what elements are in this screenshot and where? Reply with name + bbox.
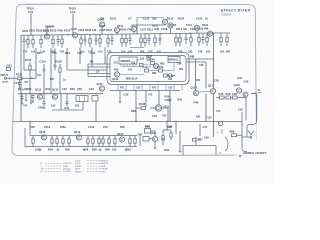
border frame of schematic sheet (12, 4, 256, 155)
label right of module wires (190, 56, 204, 68)
label NORMAL EFFECT (244, 152, 267, 155)
svg-text:10k: 10k (92, 28, 97, 32)
test point TP102 label (69, 8, 77, 15)
labels right cluster (196, 76, 249, 96)
resistor R130 (230, 129, 243, 136)
svg-text:C40: C40 (244, 80, 249, 84)
svg-text:C104: C104 (78, 28, 85, 32)
svg-text:R67: R67 (198, 139, 203, 142)
svg-text:C61: C61 (114, 62, 119, 65)
svg-text:MN3101: MN3101 (169, 58, 179, 62)
svg-text:471: 471 (24, 80, 29, 84)
svg-text:R64: R64 (165, 148, 170, 152)
svg-text:4k7: 4k7 (226, 50, 231, 54)
svg-text:C122: C122 (143, 17, 150, 21)
svg-text:TR: TR (41, 169, 44, 171)
svg-text:Q101: Q101 (43, 29, 50, 33)
upper small labels row (100, 17, 208, 21)
sub bus above (137, 25, 165, 34)
wire vertical x105 (104, 47, 106, 64)
svg-text:R106: R106 (85, 28, 92, 32)
svg-text:IC102: IC102 (75, 163, 81, 165)
svg-text:R111: R111 (147, 27, 153, 31)
svg-text:68p: 68p (179, 68, 184, 71)
svg-text:C28: C28 (124, 93, 129, 97)
transistor Q102 (71, 27, 78, 38)
IC U102 MN3101 (168, 57, 180, 63)
resistor R122 (25, 58, 32, 74)
svg-text:C42: C42 (103, 125, 108, 129)
svg-text:103: 103 (140, 58, 145, 61)
wire sub bus upper (137, 18, 164, 26)
wire TP101 to top bus (30, 14, 32, 36)
svg-text:C22: C22 (62, 87, 67, 91)
wire drop x61 (60, 94, 62, 110)
svg-text:FL-A: FL-A (18, 88, 24, 92)
svg-text:R60: R60 (105, 148, 110, 152)
svg-text:R107: R107 (106, 28, 113, 32)
svg-text:470k: 470k (57, 28, 63, 32)
wire vertical x30 low (29, 74, 31, 94)
svg-text:C9: C9 (96, 69, 100, 73)
svg-text:R93: R93 (152, 72, 157, 75)
extra module labels (114, 63, 173, 82)
wire vertical x67 (66, 48, 68, 70)
resistor R128 (136, 102, 146, 110)
transistor Q123 (194, 25, 199, 33)
bus row C lower (30, 146, 137, 148)
wire vertical x92 (91, 48, 93, 68)
svg-text:R42: R42 (178, 99, 183, 102)
transistor Q106 (162, 19, 167, 25)
second label row above bus (45, 23, 209, 29)
svg-text:R135: R135 (146, 55, 153, 58)
svg-text:R134: R134 (178, 17, 185, 21)
svg-text:1M: 1M (183, 27, 187, 31)
curved wire bottom (225, 137, 228, 151)
transistor Q101 (43, 29, 50, 40)
svg-text:Q103: Q103 (98, 18, 105, 22)
svg-text:Q109: Q109 (112, 77, 119, 81)
component box at border top (6, 64, 12, 71)
wire vertical x246 (245, 98, 247, 121)
svg-text:IC101: IC101 (75, 160, 81, 162)
svg-text:PHONE: PHONE (101, 169, 109, 171)
resistor R126 in module (157, 65, 164, 72)
svg-text:C16: C16 (77, 51, 82, 55)
transistor Q113 (52, 94, 57, 99)
svg-text:R103: R103 (50, 29, 57, 33)
transistor Q118 (39, 130, 47, 140)
labels above row B (18, 87, 94, 92)
resistor R127 in module (164, 74, 176, 78)
svg-text:C46: C46 (204, 137, 209, 140)
svg-text:27k: 27k (198, 50, 203, 54)
IC U101 pin ticks (121, 64, 136, 67)
wire vertical x213 lower (213, 94, 215, 122)
long bus wire (13, 121, 214, 123)
ground ticks row C (39, 148, 128, 151)
svg-text:LEVEL: LEVEL (2, 82, 9, 84)
wire Q114 to Q115 (199, 91, 211, 94)
module outer enclosure (107, 53, 189, 85)
svg-text:R38: R38 (131, 109, 136, 113)
svg-text:4.7: 4.7 (128, 17, 132, 21)
transistor Q104 (114, 27, 119, 34)
svg-text:333: 333 (188, 50, 193, 54)
label mid-left 3 (24, 89, 29, 91)
svg-text:NORMAL / EFFECT: NORMAL / EFFECT (244, 152, 267, 155)
resistor R135 in module (146, 55, 153, 60)
svg-text:R131: R131 (110, 17, 117, 21)
svg-text:C108: C108 (161, 27, 168, 31)
svg-text:C43: C43 (162, 115, 167, 118)
wire Q103 to bus (101, 27, 103, 34)
transistor Q121 (150, 132, 158, 142)
labels mid right (124, 93, 170, 119)
svg-text:JACK: JACK (75, 168, 81, 171)
svg-text:R121: R121 (202, 23, 209, 27)
svg-text:MN3005: MN3005 (101, 160, 110, 162)
svg-text:C36: C36 (214, 79, 219, 83)
transistor Q117 (243, 92, 248, 97)
svg-text:R88: R88 (190, 56, 195, 59)
svg-text:C45: C45 (138, 133, 143, 136)
svg-text:R66: R66 (167, 125, 172, 129)
svg-text:C23: C23 (89, 87, 94, 91)
component value labels above bus (22, 27, 209, 33)
resistor R123 (56, 60, 63, 77)
capacitor C114 (40, 60, 47, 94)
bus row C right (140, 122, 176, 147)
wire rowC cluster (149, 131, 157, 149)
svg-text:C117: C117 (143, 65, 150, 69)
svg-text:C123: C123 (196, 17, 203, 21)
transistor Q103 (98, 18, 105, 28)
svg-text:56k: 56k (204, 27, 209, 31)
capacitor drop x22 (21, 94, 24, 105)
cluster near x196 (193, 137, 210, 146)
arrow under label (239, 156, 241, 159)
transistor Q108 (207, 31, 212, 36)
bus row B right (110, 90, 180, 92)
wire vertical x242 (241, 112, 243, 137)
resistor box rowC r2 (138, 133, 150, 141)
input jack J101 label (1, 74, 9, 77)
capacitor drop x44 (43, 94, 46, 109)
junction dots on top bus (30, 32, 214, 36)
svg-text:R46: R46 (226, 92, 231, 96)
svg-text:Q112: Q112 (35, 88, 42, 92)
transistor Q114 (191, 85, 199, 95)
capacitor C115a (32, 94, 35, 103)
svg-text:R128: R128 (139, 102, 146, 106)
svg-text:B: B (258, 89, 260, 92)
wire vertical x213 upper (213, 33, 215, 88)
resistor rowC r4 (167, 125, 172, 140)
input jack symbol (4, 77, 15, 80)
IC U101 MN3005 (119, 57, 137, 64)
svg-text:C119: C119 (44, 125, 51, 129)
transistor Q122 on bus (217, 121, 223, 134)
pot VR101 box (76, 96, 88, 102)
svg-text:Q121: Q121 (150, 132, 157, 135)
svg-text:C111: C111 (186, 23, 192, 27)
svg-text:C52: C52 (136, 87, 141, 90)
capacitor drop x67 (66, 94, 69, 107)
svg-text:104: 104 (31, 50, 36, 54)
capacitor C113 (18, 80, 21, 89)
svg-text:R50: R50 (120, 125, 125, 129)
svg-text:EFFECT MIXER: EFFECT MIXER (221, 8, 251, 12)
svg-text:R61: R61 (196, 116, 201, 119)
wire Q101 collector (47, 27, 53, 34)
diode D101 in module (166, 74, 175, 78)
mid label row (37, 51, 96, 55)
svg-text:472: 472 (148, 93, 153, 97)
transistor Q111 below module (97, 82, 105, 91)
svg-text:R109: R109 (120, 28, 127, 32)
capacitor on x170 (169, 96, 172, 104)
svg-text:47u: 47u (98, 50, 103, 54)
svg-text:C56: C56 (199, 64, 204, 67)
bus row C upper (30, 135, 137, 137)
svg-text:330: 330 (152, 17, 157, 21)
wire rowC right verticals (200, 122, 214, 138)
svg-text:C65: C65 (168, 79, 173, 81)
svg-text:R45: R45 (219, 92, 224, 96)
vertical drops rowB right (119, 91, 171, 122)
svg-text:Q114: Q114 (191, 85, 198, 89)
transistor Q112 (37, 94, 42, 99)
svg-text:R31: R31 (46, 87, 51, 91)
svg-text:C120: C120 (88, 125, 95, 129)
base rail segment (130, 47, 144, 49)
svg-text:Q120: Q120 (117, 132, 124, 136)
wire input line (15, 77, 18, 79)
svg-text:2.1V: 2.1V (70, 10, 76, 14)
wire opamp (150, 108, 168, 122)
resistors and capacitors hanging from top bus (23, 33, 229, 48)
label mid-left 2 (50, 78, 66, 82)
wires into module left (88, 64, 110, 77)
label above x242 (238, 108, 243, 112)
svg-text:R68: R68 (230, 129, 235, 133)
svg-text:R123: R123 (56, 60, 63, 64)
test point TP101 label (27, 8, 35, 15)
svg-text:224: 224 (112, 148, 117, 152)
svg-text:R63: R63 (145, 125, 150, 128)
svg-text:Q111: Q111 (97, 82, 104, 86)
label near border bottom (220, 153, 222, 155)
wire down from x242 (242, 137, 247, 152)
svg-text:R122: R122 (25, 58, 32, 62)
ground drop x31 (30, 94, 33, 104)
svg-text:VR1: VR1 (77, 87, 83, 91)
svg-text:C114: C114 (40, 60, 47, 64)
svg-text:R54: R54 (48, 148, 53, 152)
svg-text:R49: R49 (194, 101, 199, 105)
svg-text:2SC945: 2SC945 (63, 169, 71, 171)
svg-text:R23: R23 (65, 51, 70, 55)
wire vertical x24 (23, 46, 25, 70)
transistor Q109 in module (112, 72, 120, 81)
label near input 2 (2, 82, 9, 84)
svg-text:R21: R21 (37, 51, 42, 55)
capacitor C117 in module (143, 65, 150, 72)
svg-text:R114: R114 (176, 27, 183, 31)
svg-text:1S1588: 1S1588 (63, 171, 71, 173)
wire rowC left (25, 122, 30, 147)
svg-text:104: 104 (51, 104, 56, 108)
svg-text:C64: C64 (177, 63, 182, 66)
resistor R124 in module (149, 58, 156, 65)
svg-text:Q118: Q118 (39, 130, 46, 134)
wire vertical x180 with ground (179, 131, 182, 153)
svg-text:R133: R133 (167, 17, 174, 21)
svg-text:3.3k: 3.3k (154, 27, 160, 31)
svg-text:223: 223 (75, 104, 80, 108)
svg-text:C20: C20 (27, 87, 32, 91)
row C value labels (35, 148, 131, 152)
wire to arrow (242, 136, 251, 138)
wire drop x96 (95, 101, 97, 122)
svg-text:C62: C62 (131, 63, 136, 65)
junction dots long bus (29, 121, 214, 122)
svg-text:R124: R124 (149, 58, 156, 62)
wire bus to right end (214, 121, 243, 123)
svg-text:INPUT: INPUT (1, 74, 9, 77)
svg-text:50kB: 50kB (101, 166, 106, 168)
svg-text:C39: C39 (232, 92, 237, 96)
svg-text:R120: R120 (16, 73, 23, 77)
tick through border (251, 89, 262, 94)
module inner enclosure (110, 56, 186, 82)
transistor Q110 in module (153, 63, 158, 68)
transistor Q116 (234, 83, 242, 93)
wire vertical x36 (35, 48, 37, 79)
transistor Q115 (208, 83, 216, 93)
wire module internal 3 (163, 63, 175, 71)
svg-text:331: 331 (196, 78, 201, 82)
svg-text:474: 474 (216, 109, 221, 113)
svg-text:DPDT: DPDT (101, 171, 107, 173)
svg-text:Q102: Q102 (71, 27, 78, 31)
svg-text:C33: C33 (152, 114, 157, 118)
svg-text:R56: R56 (65, 148, 70, 152)
svg-text:Q113: Q113 (52, 88, 59, 92)
module pin labels below (120, 87, 173, 90)
svg-text:1/4W 5%: 1/4W 5% (63, 163, 72, 165)
svg-text:C13: C13 (14, 81, 19, 85)
labels left of module (90, 60, 100, 74)
svg-text:C118: C118 (206, 116, 213, 120)
wire x60 to rowB (59, 76, 61, 94)
label in module (126, 58, 184, 81)
wire vertical x206 (205, 62, 207, 122)
legend right column (75, 160, 109, 173)
module internal wire 4 (118, 60, 150, 72)
wire module internal 1 (122, 66, 144, 68)
label mid-left 1 (31, 74, 42, 80)
wire down along border (247, 94, 257, 138)
svg-text:220u: 220u (60, 125, 66, 129)
labels in module 2 (114, 62, 183, 76)
svg-text:5.4V: 5.4V (28, 10, 34, 14)
svg-text:R53: R53 (30, 125, 35, 129)
svg-text:105: 105 (206, 50, 211, 54)
svg-text:164: 164 (220, 50, 225, 54)
capacitor C125 in module (140, 64, 149, 67)
svg-text:R101: R101 (22, 29, 29, 33)
label R42 (178, 99, 183, 102)
small box right of pot (92, 96, 98, 102)
wire TP102 to top bus (72, 14, 74, 35)
svg-text:MN3101: MN3101 (101, 163, 110, 165)
module pin ticks bottom (118, 85, 182, 91)
resistor box rowC r1 (145, 125, 151, 133)
bus stub right (214, 32, 231, 34)
border faded corner (235, 122, 257, 155)
svg-text:R72: R72 (152, 87, 157, 90)
labels above bus right (162, 115, 201, 119)
wire vertical x195 (195, 59, 197, 90)
svg-text:R25: R25 (91, 51, 96, 55)
bus row B left (18, 93, 103, 95)
legend left column (41, 163, 72, 173)
title text EFFECT MIXER (221, 8, 251, 12)
top supply bus wire (21, 33, 214, 35)
subtitle part number (221, 13, 232, 17)
wire vertical x80 (79, 48, 81, 64)
label under input (14, 80, 29, 85)
resistor R120 horizontal (16, 73, 36, 80)
labels below row B (23, 104, 80, 111)
transistor Q119 (74, 130, 82, 140)
wire x67 horizontal to module (24, 69, 107, 71)
resistor row right (216, 96, 246, 99)
svg-text:473: 473 (23, 104, 28, 108)
wire vertical x51 (50, 48, 52, 94)
arrow jack symbol (248, 131, 254, 140)
wire vertical x21 (20, 35, 22, 121)
svg-text:C107: C107 (140, 27, 147, 31)
resistor rowC r3 (162, 130, 170, 152)
capacitor C130 (54, 49, 57, 71)
svg-text:R8: R8 (90, 60, 94, 64)
svg-text:MN3005: MN3005 (121, 59, 131, 63)
svg-text:7005054: 7005054 (221, 13, 232, 17)
wire along border bottom (183, 146, 216, 156)
svg-text:Q119: Q119 (74, 130, 81, 134)
wire module right 2 (186, 61, 206, 63)
labels below bus right (162, 138, 201, 142)
svg-text:C17: C17 (37, 74, 42, 77)
transistor Q120 (117, 132, 125, 142)
value labels below hanging parts (23, 50, 231, 54)
labels under right cluster (194, 101, 221, 120)
rail row B lower (52, 109, 83, 111)
svg-text:J101: J101 (6, 64, 12, 68)
svg-text:Q116: Q116 (234, 83, 241, 87)
svg-text:C101: C101 (29, 29, 36, 33)
svg-text:C24: C24 (38, 106, 43, 110)
svg-text:50WV: 50WV (63, 166, 69, 168)
svg-text:R34: R34 (65, 106, 70, 110)
op-amp U103 (155, 104, 169, 111)
wire module right 1 (186, 58, 214, 60)
svg-text:R27: R27 (50, 78, 55, 81)
